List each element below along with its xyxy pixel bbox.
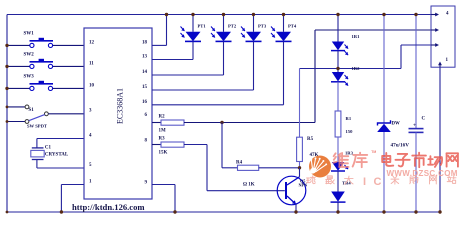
label SW SPDT (27, 124, 47, 129)
resistor R3 (161, 142, 184, 147)
wire pin 14 to PT2 (152, 74, 224, 76)
resistor R5 (297, 137, 303, 161)
wire riser to connector pin3 (315, 30, 431, 123)
label url (72, 202, 145, 212)
svg-text:+: + (413, 122, 416, 128)
wire node to connector pin2 (401, 45, 431, 69)
photodiode PT4 (271, 15, 292, 105)
junction dot C rail (414, 13, 417, 16)
wire C to ground (415, 132, 417, 212)
pin 13 label (142, 55, 148, 60)
switch SW1 (7, 32, 84, 48)
switch S1 SPDT (7, 105, 84, 123)
pin 16 label (142, 100, 148, 105)
pin 8 label (145, 139, 148, 144)
label NPN (299, 183, 308, 188)
svg-text:PT3: PT3 (258, 24, 267, 29)
junction dot S1 bottom throw (6, 120, 9, 123)
crystal C1 (31, 139, 84, 169)
svg-text:SW3: SW3 (24, 75, 35, 80)
svg-text:R5: R5 (307, 137, 314, 142)
label 1M (159, 129, 167, 134)
svg-text:S1: S1 (29, 108, 35, 113)
zener diode DW (377, 120, 391, 132)
svg-text:PT4: PT4 (288, 24, 297, 29)
svg-text:SW SPDT: SW SPDT (27, 124, 47, 129)
svg-text:WWW.DZSC.COM: WWW.DZSC.COM (387, 169, 458, 178)
svg-text:150: 150 (346, 129, 354, 134)
resistor R4 (238, 165, 259, 170)
label 15K (159, 151, 168, 156)
svg-text:R1: R1 (346, 116, 352, 121)
svg-text:SW1: SW1 (24, 32, 35, 37)
wire R2 tap down to R4 (222, 123, 238, 168)
pin 3 label (89, 109, 92, 114)
junction dot IR chain ground (336, 210, 339, 213)
pin 12 label (89, 40, 95, 45)
svg-text:CRYSTAL: CRYSTAL (45, 153, 69, 158)
resistor R2 (161, 120, 184, 125)
wire rail to C (415, 15, 417, 129)
junction dot DW rail (382, 13, 385, 16)
led IR2 (331, 72, 348, 86)
svg-text:15K: 15K (159, 151, 168, 156)
label Q5 (300, 178, 305, 183)
svg-text:1R3: 1R3 (345, 150, 354, 155)
label R4 (236, 160, 243, 165)
label 47u16V (391, 142, 410, 148)
label R5 (307, 137, 314, 142)
pin 1 label connector (446, 58, 449, 63)
transistor Q5 (277, 168, 306, 212)
wire node row to R5 (300, 68, 402, 70)
junction dot left rail row SW1 (5, 44, 8, 47)
svg-text:1R2: 1R2 (352, 66, 361, 71)
wire R5 bottom (299, 162, 301, 168)
junction dot PT3 rail (252, 13, 255, 16)
junction dot pin18 rail (165, 13, 168, 16)
wire rail to IR1 (337, 15, 339, 42)
wire 1R3 to TR4 (337, 171, 339, 192)
op-amp U1 IC EC3368A1 body (84, 28, 152, 199)
junction dot left rail row SW2 (5, 65, 8, 68)
svg-text:PT1: PT1 (198, 24, 207, 29)
label R2 (159, 114, 166, 119)
label R1 (346, 116, 352, 121)
junction dot S1 top throw (6, 106, 9, 109)
junction dot connector ground (438, 210, 441, 213)
label EC3368A1 (116, 88, 125, 124)
junction dot R2 tap (220, 121, 223, 124)
label 1R2 (352, 66, 361, 71)
pin 5 label (89, 163, 92, 168)
pin 18 label (142, 40, 148, 45)
svg-text:13: 13 (142, 55, 148, 60)
junction dot PT2 rail (222, 13, 225, 16)
resistor R1 (335, 111, 341, 137)
wire pin 1 to ground (61, 185, 84, 213)
pin 1 label (89, 180, 92, 185)
svg-text:15: 15 (142, 85, 148, 90)
label CRYSTAL (45, 153, 69, 158)
svg-text:R4: R4 (236, 160, 243, 165)
wire bottom ground rail (7, 211, 440, 213)
diode TR4 (331, 192, 346, 203)
label 47K (310, 153, 319, 158)
connector J1 (431, 6, 455, 67)
wire top supply rail (7, 14, 431, 16)
junction dot pin1 ground (60, 210, 63, 213)
junction dot IR chain rail (336, 13, 339, 16)
junction dot bottom-left corner (6, 211, 9, 214)
photodiode PT3 (241, 15, 262, 91)
junction dot IR node (336, 67, 339, 70)
wire DW to ground (383, 132, 385, 212)
svg-text:NPN: NPN (299, 183, 308, 188)
svg-text:EC3368A1: EC3368A1 (116, 88, 125, 124)
label C1 (45, 146, 52, 151)
pin 9 label (145, 181, 148, 186)
label R3 (159, 136, 166, 141)
pin 6 label (145, 113, 148, 118)
wire R2 to riser (184, 122, 315, 124)
wire TR4 to ground (337, 202, 339, 212)
pin 4 label (89, 134, 92, 139)
pin 11 label (89, 61, 94, 66)
wire R1 to 1R3 (337, 137, 339, 162)
watermark logo and text (306, 150, 458, 188)
switch SW2 (7, 53, 84, 69)
svg-text:47u/16V: 47u/16V (391, 142, 410, 148)
wire R4 to collector node (259, 167, 300, 169)
label 150 (346, 129, 354, 134)
label C (422, 117, 426, 122)
pin 14 label (142, 70, 148, 75)
junction dot DW ground (382, 210, 385, 213)
junction dot C ground (414, 210, 417, 213)
wire R3 to base (184, 145, 285, 191)
junction dot pin9 ground (173, 210, 176, 213)
svg-text:1M: 1M (159, 129, 167, 134)
label 1K (243, 183, 255, 188)
label PT2 (228, 24, 237, 29)
junction dot PT4 rail (282, 13, 285, 16)
svg-text:C1: C1 (45, 146, 52, 151)
wire pin 16 to PT4 (152, 104, 284, 106)
svg-text:11: 11 (89, 61, 94, 66)
led 1R3 (331, 162, 348, 171)
wire pin 18 to top rail (152, 15, 167, 46)
wire connector pin1 to ground (439, 67, 441, 212)
svg-text:10: 10 (89, 83, 95, 88)
pin 4 label connector (446, 11, 449, 16)
wire rail to DW (383, 15, 385, 124)
wire pin 8 stub (152, 144, 161, 146)
switch SW3 (7, 75, 84, 91)
svg-text:18: 18 (142, 40, 148, 45)
svg-text:R3: R3 (159, 136, 166, 141)
wire R5 riser (299, 69, 301, 138)
svg-text:DW: DW (392, 122, 400, 127)
wire IR2 to R1 (337, 82, 339, 111)
junction dot PT1 rail (191, 13, 194, 16)
photodiode PT2 (211, 15, 232, 76)
svg-text:SW2: SW2 (24, 53, 35, 58)
svg-text:1R1: 1R1 (352, 34, 361, 39)
label 1R1 (352, 34, 361, 39)
pin 10 label (89, 83, 95, 88)
svg-text:I: I (363, 176, 366, 188)
label PT1 (198, 24, 207, 29)
svg-text:http://ktdn.126.com: http://ktdn.126.com (72, 202, 145, 212)
junction dot collector node (298, 166, 301, 169)
label S1 (29, 108, 35, 113)
wire pin 15 to PT3 (152, 89, 254, 91)
capacitor C (409, 122, 424, 132)
wire pin 9 to ground (152, 185, 175, 213)
svg-text:Ω 1K: Ω 1K (243, 183, 255, 188)
photodiode PT1 (181, 15, 202, 60)
label DW (392, 122, 400, 127)
wire IR1 to IR2 (337, 51, 339, 72)
label 1R3 (345, 150, 354, 155)
label PT3 (258, 24, 267, 29)
junction dot left rail row SW3 (5, 87, 8, 90)
svg-text:R2: R2 (159, 114, 166, 119)
svg-text:12: 12 (89, 40, 95, 45)
svg-text:C: C (422, 117, 426, 122)
led IR1 (331, 42, 348, 56)
svg-text:TM: TM (371, 150, 376, 154)
junction dot emitter ground (294, 210, 297, 213)
svg-text:C: C (374, 176, 382, 188)
svg-text:16: 16 (142, 100, 148, 105)
svg-text:PT2: PT2 (228, 24, 237, 29)
wire left rail (6, 15, 8, 213)
pin 15 label (142, 85, 148, 90)
wire pin 13 to PT1 (152, 59, 193, 61)
label TR4 (342, 181, 351, 186)
label PT4 (288, 24, 297, 29)
wire pin 6 stub (152, 122, 161, 124)
svg-text:14: 14 (142, 70, 148, 75)
